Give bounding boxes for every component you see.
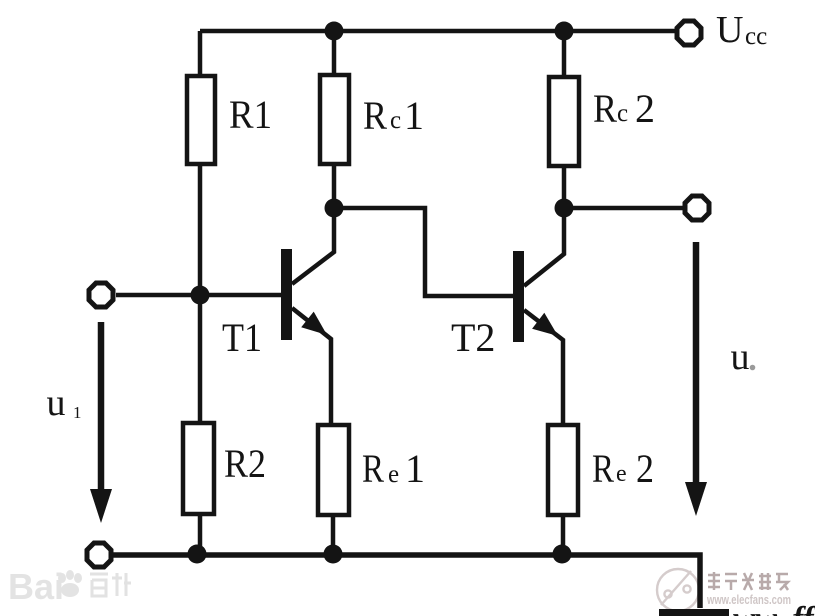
- svg-text:cc: cc: [745, 23, 767, 50]
- svg-text:2: 2: [636, 446, 654, 491]
- svg-text:1: 1: [405, 446, 425, 491]
- svg-text:R1: R1: [229, 92, 272, 137]
- svg-text:c: c: [390, 107, 401, 134]
- svg-text:U: U: [716, 9, 743, 51]
- svg-text:u: u: [731, 336, 750, 378]
- svg-text:T1: T1: [222, 315, 262, 360]
- svg-text:Bai: Bai: [8, 566, 64, 607]
- svg-text:1: 1: [73, 403, 82, 422]
- svg-text:R: R: [363, 93, 387, 138]
- svg-text:R: R: [593, 86, 617, 131]
- svg-text:R2: R2: [224, 441, 266, 486]
- svg-text:R: R: [592, 446, 614, 491]
- svg-text:T2: T2: [451, 315, 495, 360]
- svg-text:2: 2: [635, 86, 655, 131]
- svg-text:u: u: [47, 382, 66, 424]
- svg-text:c: c: [617, 100, 628, 127]
- svg-text:1: 1: [404, 93, 424, 138]
- svg-text:e: e: [388, 461, 399, 488]
- svg-text:ww. ff. ff: ww. ff. ff: [733, 601, 815, 616]
- svg-text:e: e: [616, 461, 627, 487]
- svg-text:R: R: [362, 446, 384, 491]
